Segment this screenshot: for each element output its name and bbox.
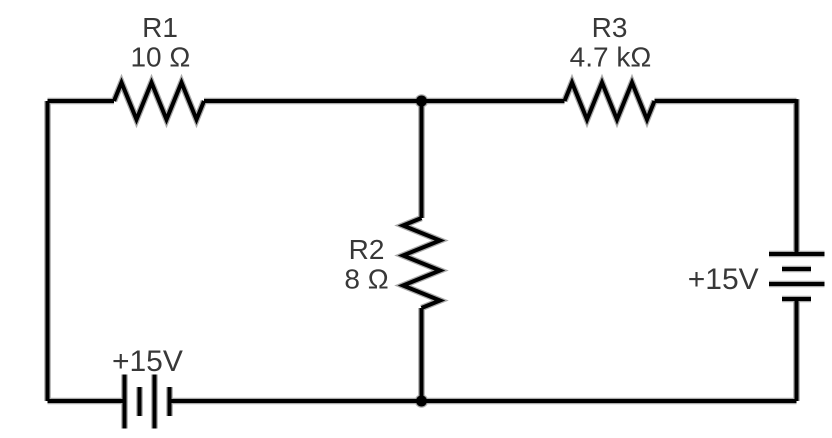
svg-text:4.7 kΩ: 4.7 kΩ	[570, 42, 652, 73]
battery V2 plate short	[782, 267, 811, 271]
node B junction dot	[416, 396, 427, 407]
svg-text:+15V: +15V	[112, 345, 183, 378]
resistor R3	[565, 83, 655, 120]
wire top-left to R1	[48, 99, 115, 103]
wire middle vertical upper (node A to R2)	[420, 101, 424, 218]
wire left vertical	[46, 101, 50, 401]
battery V1 plate short	[138, 387, 142, 416]
soft-edge halo underlay for all wires and symbols	[48, 83, 825, 429]
battery V1 plate short right	[168, 387, 172, 416]
battery V2 plate long	[769, 282, 825, 286]
battery V2 plate long top	[769, 252, 825, 256]
svg-text:R1: R1	[142, 12, 178, 43]
battery V1 plate long	[153, 375, 157, 429]
wire bottom-right to node B	[422, 399, 797, 403]
svg-text:R2: R2	[349, 234, 385, 265]
svg-text:10 Ω: 10 Ω	[130, 42, 190, 73]
wire battery V1 to bottom-left corner	[48, 399, 125, 403]
svg-text:+15V: +15V	[688, 263, 759, 296]
wire right vertical lower	[795, 299, 799, 401]
resistor R1	[114, 83, 204, 120]
wire right vertical upper	[795, 99, 799, 254]
wire R3 to top-right corner	[655, 99, 797, 103]
battery V1 plate long left	[123, 375, 127, 429]
battery V2 plate short bottom	[782, 297, 811, 301]
svg-text:R3: R3	[592, 12, 628, 43]
wire R1 to node A	[204, 99, 422, 103]
node A junction dot	[416, 96, 427, 107]
wire node B to battery V1	[170, 399, 422, 403]
wire node A to R3	[422, 99, 565, 103]
wire middle vertical lower (R2 to node B)	[420, 308, 424, 401]
svg-text:8 Ω: 8 Ω	[344, 264, 388, 295]
resistor R2	[403, 218, 440, 308]
